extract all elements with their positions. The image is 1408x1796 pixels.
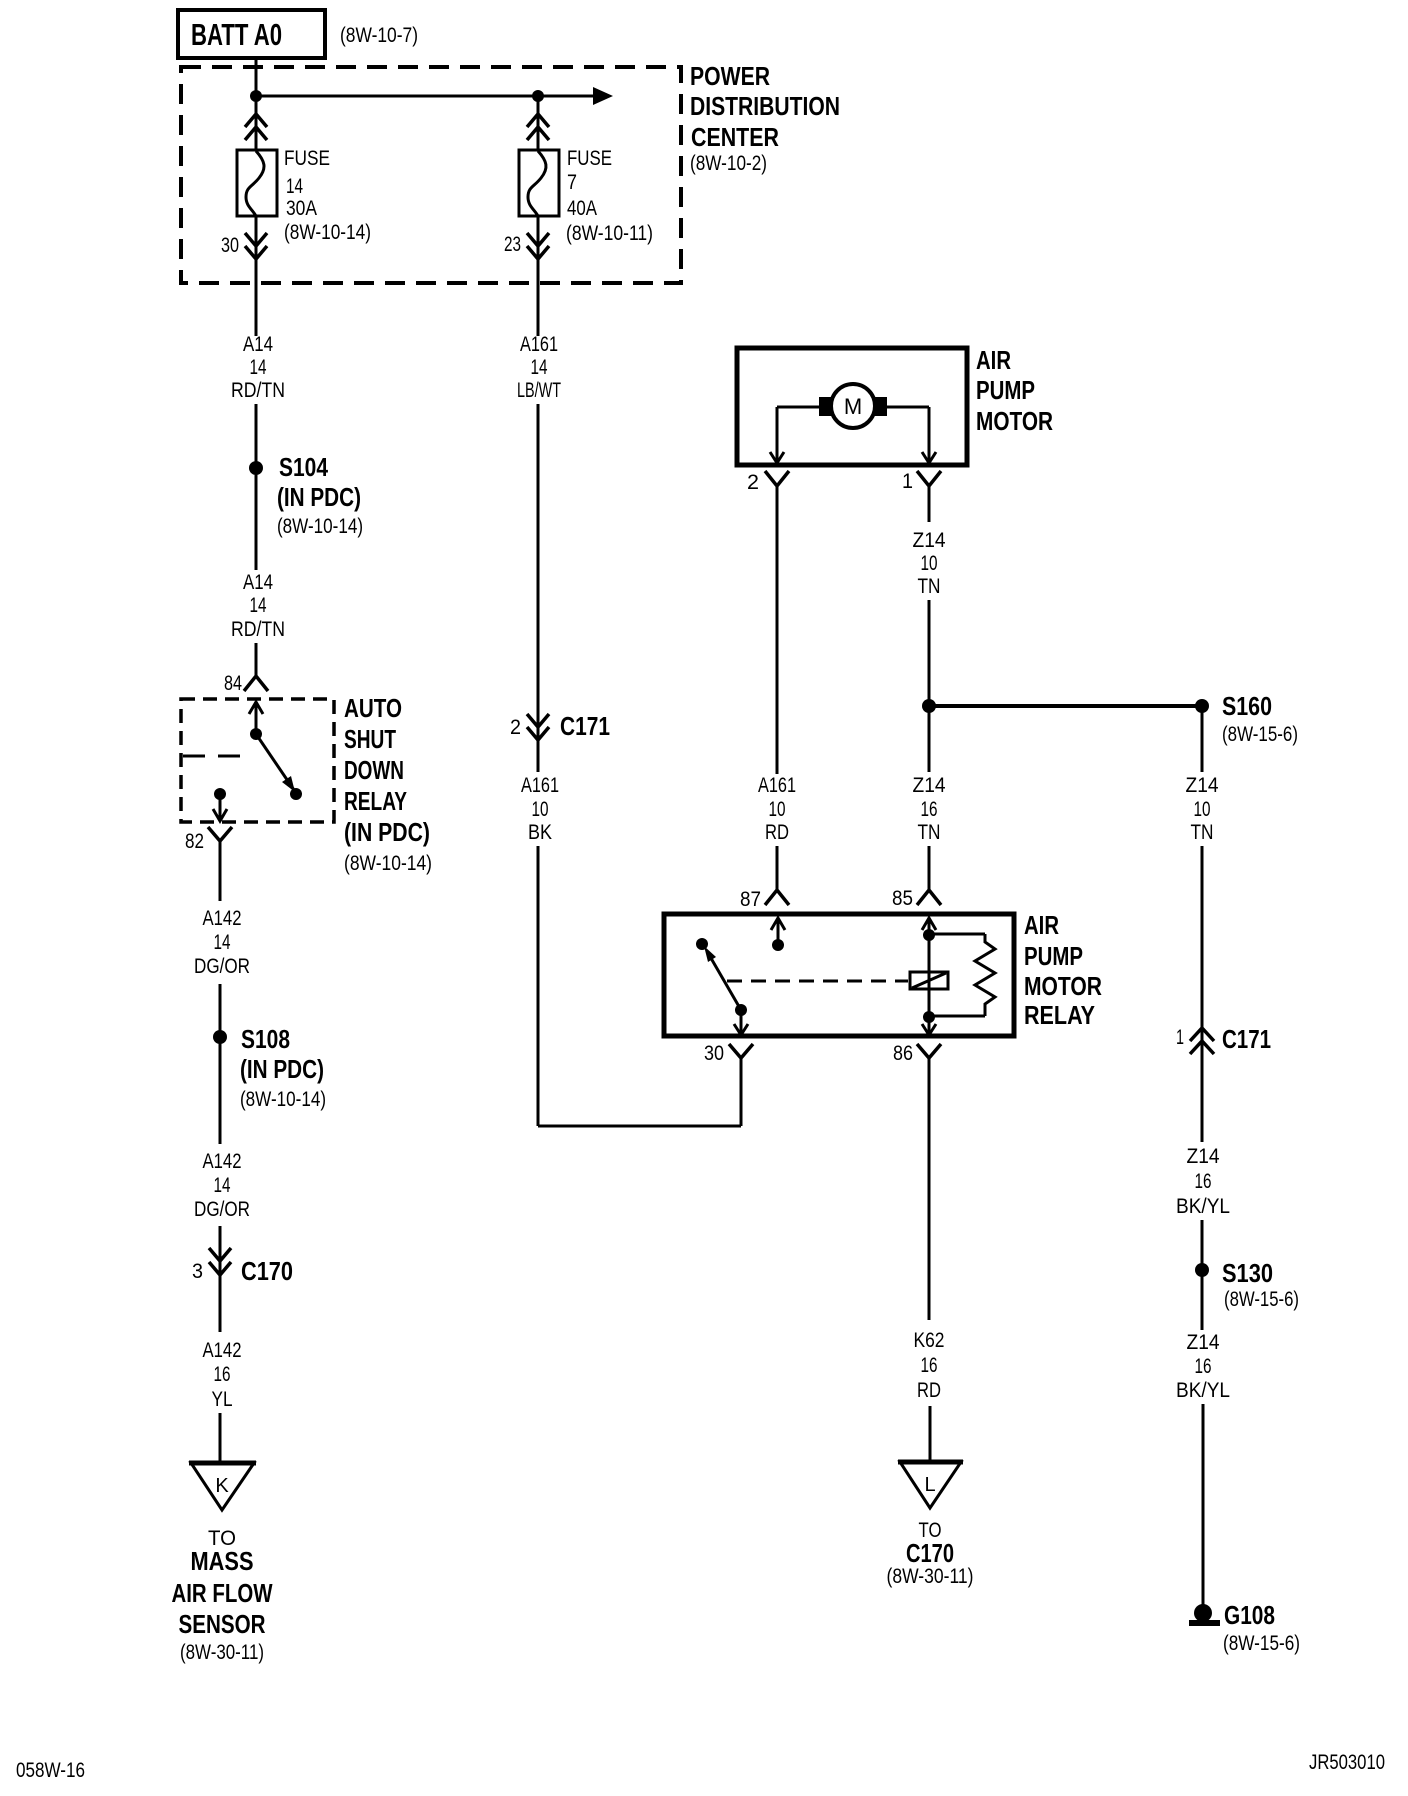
splice S160 dot (1195, 699, 1209, 713)
svg-text:(8W-30-11): (8W-30-11) (180, 1641, 264, 1664)
wire label A142 16 YL (203, 1339, 242, 1411)
svg-text:14: 14 (214, 931, 231, 954)
svg-text:85: 85 (892, 887, 913, 910)
svg-text:RD: RD (917, 1379, 941, 1402)
wire S160 down (1201, 706, 1204, 772)
svg-text:C171: C171 (560, 711, 610, 741)
wire to relay pin 87 (776, 846, 779, 890)
wire label A161 10 RD (758, 774, 796, 844)
power distribution center label (690, 61, 840, 175)
wire node to fuse 7 (537, 96, 540, 151)
splice S130 dot (1195, 1263, 1209, 1277)
fuse F14 output terminal chevrons pin 30 (245, 233, 267, 259)
svg-text:K62: K62 (914, 1329, 945, 1352)
svg-text:14: 14 (250, 594, 267, 617)
svg-text:RELAY: RELAY (1024, 1000, 1095, 1030)
svg-text:A161: A161 (520, 333, 558, 356)
wire to splice S108 (219, 984, 222, 1037)
svg-text:A142: A142 (203, 1339, 242, 1362)
svg-text:10: 10 (532, 798, 549, 821)
wire label Z14 16 BK/YL lower (1176, 1331, 1230, 1402)
off-page connector L triangle (898, 1462, 963, 1508)
relay pin 30 connector chevron (729, 1044, 753, 1058)
svg-text:S104: S104 (279, 452, 328, 482)
svg-text:A161: A161 (758, 774, 796, 797)
fuse F14 value label (284, 147, 371, 244)
svg-text:30: 30 (704, 1042, 724, 1065)
wire motor pin 1 down (928, 486, 931, 522)
svg-text:M: M (844, 394, 862, 419)
wire S160 branch horizontal (929, 704, 1202, 708)
fuse F14 30A (237, 150, 277, 216)
fuse F7 input terminal chevrons (527, 114, 549, 140)
svg-text:14: 14 (250, 356, 267, 379)
svg-text:MASS: MASS (191, 1546, 254, 1576)
wire label A161 14 LB/WT (517, 333, 561, 402)
svg-text:YL: YL (212, 1388, 233, 1411)
svg-text:82: 82 (185, 830, 204, 853)
wire label A142 14 DG/OR upper (194, 907, 250, 978)
svg-text:AIR FLOW: AIR FLOW (172, 1578, 273, 1608)
svg-text:K: K (215, 1475, 229, 1497)
svg-text:16: 16 (921, 1354, 938, 1377)
svg-text:Z14: Z14 (1187, 1145, 1220, 1168)
node splice at fuse 14 feed (250, 90, 262, 102)
wire fuse 7 output (537, 216, 540, 336)
svg-text:TN: TN (1191, 821, 1214, 844)
svg-text:40A: 40A (567, 197, 597, 220)
wire to splice S160 junction (928, 600, 931, 706)
svg-text:(8W-30-11): (8W-30-11) (887, 1565, 974, 1588)
svg-text:23: 23 (504, 233, 521, 256)
svg-text:L: L (924, 1474, 935, 1496)
motor pin 2 internal arrow (770, 452, 784, 463)
svg-text:(IN PDC): (IN PDC) (240, 1054, 324, 1084)
wire below S130 (1201, 1270, 1204, 1330)
relay pin 85 internal arrow (922, 918, 936, 935)
svg-text:(IN PDC): (IN PDC) (344, 817, 430, 847)
splice S108 label (240, 1024, 326, 1111)
fuse F7 40A (519, 150, 559, 216)
svg-text:(8W-10-14): (8W-10-14) (277, 515, 363, 538)
relay pin 30 internal arrow (734, 1010, 748, 1035)
pin 84 connector chevron (244, 676, 268, 691)
power distribution center dashed box (181, 67, 681, 283)
relay coil upper dot (923, 929, 935, 941)
svg-text:2: 2 (510, 716, 521, 739)
air pump motor relay label (1024, 910, 1102, 1030)
svg-text:S130: S130 (1222, 1258, 1273, 1288)
svg-text:POWER: POWER (690, 61, 770, 91)
svg-text:84: 84 (224, 672, 242, 695)
svg-text:1: 1 (1176, 1026, 1184, 1049)
wire through connector C171 right (1201, 846, 1204, 1142)
svg-text:FUSE: FUSE (567, 147, 612, 170)
wire to splice S130 (1201, 1220, 1204, 1270)
wire arrow continuing right (538, 87, 613, 105)
svg-text:(8W-15-6): (8W-15-6) (1222, 723, 1298, 746)
wire from BK label to relay pin 30 (538, 846, 741, 1126)
pin 82 connector chevron (208, 827, 232, 841)
destination label C170 (887, 1519, 974, 1588)
motor internal wires (777, 407, 929, 462)
wire label A14 14 RD/TN lower (231, 571, 285, 641)
motor brush contacts (819, 397, 887, 416)
svg-text:TN: TN (918, 821, 941, 844)
ASD relay pin 82 contact dot (214, 788, 226, 800)
svg-text:BATT A0: BATT A0 (191, 17, 282, 52)
wire node to fuse 14 (255, 96, 258, 151)
relay pin 85 connector chevron (917, 890, 941, 905)
svg-text:BK/YL: BK/YL (1176, 1195, 1230, 1218)
svg-text:SENSOR: SENSOR (179, 1609, 266, 1639)
svg-text:86: 86 (893, 1042, 913, 1065)
splice S160 label (1222, 691, 1298, 746)
svg-text:14: 14 (286, 175, 303, 198)
relay pin 87 connector chevron (765, 890, 789, 905)
relay actuator dashed line (727, 980, 908, 983)
svg-text:(8W-15-6): (8W-15-6) (1223, 1632, 1300, 1655)
svg-text:C170: C170 (241, 1256, 293, 1286)
svg-text:Z14: Z14 (1187, 1331, 1220, 1354)
wire from BATT A0 into PDC (255, 58, 258, 96)
auto shut down relay dashed box (181, 699, 334, 822)
svg-text:LB/WT: LB/WT (517, 379, 561, 402)
svg-text:(8W-15-6): (8W-15-6) (1224, 1288, 1299, 1311)
svg-text:A142: A142 (203, 907, 242, 930)
svg-text:16: 16 (1195, 1355, 1212, 1378)
motor M1 circle (831, 384, 875, 428)
wire motor pin 2 down (776, 486, 779, 774)
relay pin 86 connector chevron (917, 1044, 941, 1058)
svg-text:16: 16 (1195, 1170, 1212, 1193)
wire bus across PDC (256, 95, 538, 98)
svg-text:Z14: Z14 (913, 774, 946, 797)
relay movable contact dot pin 30 (735, 1004, 747, 1016)
svg-text:2: 2 (747, 471, 759, 494)
svg-text:A161: A161 (521, 774, 559, 797)
wire to pin 85 (928, 846, 931, 890)
wire from fuse 7 down to C171 (537, 404, 540, 740)
svg-text:DG/OR: DG/OR (194, 1198, 250, 1221)
fuse F7 value label (566, 147, 653, 245)
svg-text:BK: BK (528, 821, 552, 844)
wire to ground G108 (1202, 1404, 1205, 1605)
battery feed box BATT A0 (178, 10, 325, 58)
svg-text:(8W-10-14): (8W-10-14) (344, 852, 432, 875)
connector C171 chevrons right pointing up (1190, 1028, 1214, 1054)
svg-text:S108: S108 (241, 1024, 290, 1054)
svg-text:30A: 30A (286, 197, 317, 220)
svg-text:14: 14 (531, 356, 548, 379)
wire through connector C170 (219, 1226, 222, 1332)
motor pin 2 connector chevron (765, 471, 789, 486)
ASD relay pin 84 internal arrow (249, 702, 263, 734)
svg-text:RD/TN: RD/TN (231, 379, 285, 402)
svg-text:C171: C171 (1222, 1024, 1271, 1054)
svg-text:AIR: AIR (1024, 910, 1059, 940)
svg-text:CENTER: CENTER (691, 122, 779, 152)
svg-text:AUTO: AUTO (344, 693, 402, 723)
auto shut down relay label (344, 693, 432, 875)
wire label Z14 10 TN upper (913, 529, 946, 598)
wire label Z14 16 BK/YL upper (1176, 1145, 1230, 1218)
ASD relay fixed contact dot (250, 728, 262, 740)
splice S104 dot (249, 461, 263, 475)
wire below C171 (537, 740, 540, 772)
svg-text:DOWN: DOWN (344, 755, 404, 785)
motor pin 1 connector chevron (917, 471, 941, 486)
svg-text:JR503010: JR503010 (1309, 1751, 1385, 1774)
motor pin 1 internal arrow (922, 452, 936, 463)
svg-text:Z14: Z14 (913, 529, 946, 552)
svg-text:TN: TN (918, 575, 941, 598)
svg-text:G108: G108 (1224, 1600, 1275, 1630)
svg-text:16: 16 (921, 798, 938, 821)
air pump motor box (737, 348, 967, 465)
svg-text:A14: A14 (243, 571, 273, 594)
svg-text:(8W-10-14): (8W-10-14) (240, 1088, 326, 1111)
svg-text:RELAY: RELAY (344, 786, 407, 816)
svg-text:10: 10 (921, 552, 938, 575)
svg-text:16: 16 (214, 1363, 231, 1386)
svg-text:AIR: AIR (976, 345, 1011, 375)
svg-text:30: 30 (221, 234, 239, 257)
splice S104 label (277, 452, 363, 538)
wire to splice S104 (255, 404, 258, 468)
relay fixed contact dot (696, 938, 708, 950)
svg-text:SHUT: SHUT (344, 724, 396, 754)
wire to off-page connector L (929, 1406, 932, 1460)
svg-text:(8W-10-11): (8W-10-11) (566, 222, 653, 245)
wire fuse 14 output (255, 216, 258, 336)
wire label Z14 10 TN right (1186, 774, 1219, 844)
svg-text:3: 3 (192, 1260, 203, 1283)
fuse F7 output terminal chevrons pin 23 (527, 233, 549, 259)
svg-text:BK/YL: BK/YL (1176, 1379, 1230, 1402)
destination label mass air flow sensor (172, 1527, 273, 1664)
svg-text:87: 87 (740, 888, 761, 911)
svg-text:A142: A142 (203, 1150, 242, 1173)
air pump motor label (976, 345, 1053, 436)
relay coil lower dot (923, 1011, 935, 1023)
svg-text:Z14: Z14 (1186, 774, 1219, 797)
svg-text:C170: C170 (906, 1538, 954, 1568)
ASD relay switch arm (256, 734, 295, 792)
svg-text:PUMP: PUMP (976, 375, 1035, 405)
svg-text:058W-16: 058W-16 (16, 1759, 85, 1782)
svg-text:RD/TN: RD/TN (231, 618, 285, 641)
svg-text:(IN PDC): (IN PDC) (277, 482, 361, 512)
ASD relay movable contact dot (290, 788, 302, 800)
air pump motor relay box (664, 914, 1014, 1036)
svg-text:(8W-10-2): (8W-10-2) (690, 152, 767, 175)
ASD relay actuator dashed line (183, 755, 252, 758)
svg-text:7: 7 (567, 171, 577, 194)
svg-text:PUMP: PUMP (1024, 941, 1083, 971)
wire below pin 82 (219, 841, 222, 901)
wire label K62 16 RD (914, 1329, 945, 1402)
svg-text:10: 10 (1194, 798, 1211, 821)
svg-text:DISTRIBUTION: DISTRIBUTION (690, 91, 840, 121)
off-page connector K triangle (189, 1463, 256, 1510)
wire to ASD relay pin 84 (255, 643, 258, 676)
node at fuse 7 feed (532, 90, 544, 102)
relay pin 87 contact dot (772, 939, 784, 951)
resistor across coil (929, 934, 995, 1016)
connector C170 chevrons (209, 1248, 231, 1275)
relay coil box (910, 972, 948, 989)
wire pin 86 down (928, 1058, 931, 1320)
svg-text:DG/OR: DG/OR (194, 955, 250, 978)
relay switch arm with arrowhead (704, 946, 741, 1010)
connector C171 chevrons middle (527, 714, 549, 740)
wire label A142 14 DG/OR lower (194, 1150, 250, 1221)
ASD relay pin 82 internal arrow (213, 794, 227, 821)
svg-text:FUSE: FUSE (284, 147, 330, 170)
wire label A161 10 BK (521, 774, 559, 844)
svg-text:(8W-10-14): (8W-10-14) (284, 221, 371, 244)
relay pin 87 internal arrow (771, 918, 785, 945)
fuse F14 input terminal chevrons (245, 114, 267, 140)
relay pin 86 internal arrow (922, 1017, 936, 1035)
svg-text:A14: A14 (243, 333, 273, 356)
svg-text:14: 14 (214, 1174, 231, 1197)
ground G108 label (1223, 1600, 1300, 1655)
splice junction dot at Z14 (922, 699, 936, 713)
splice S108 dot (213, 1030, 227, 1044)
ground G108 symbol (1189, 1604, 1220, 1623)
wire below junction to relay pin 85 (928, 706, 931, 772)
splice S130 label (1222, 1258, 1299, 1311)
wire label Z14 16 TN (913, 774, 946, 844)
svg-text:S160: S160 (1222, 691, 1272, 721)
relay coil wire through coil box (928, 935, 931, 1017)
svg-text:MOTOR: MOTOR (1024, 971, 1102, 1001)
svg-text:(8W-10-7): (8W-10-7) (340, 24, 418, 47)
wire to off-page connector K (219, 1413, 222, 1461)
wire label A14 14 RD/TN upper (231, 333, 285, 402)
svg-text:RD: RD (765, 821, 789, 844)
wire below S104 (255, 468, 258, 570)
svg-text:1: 1 (902, 470, 913, 493)
svg-text:10: 10 (769, 798, 786, 821)
svg-text:MOTOR: MOTOR (976, 406, 1053, 436)
wire below S108 (219, 1037, 222, 1144)
